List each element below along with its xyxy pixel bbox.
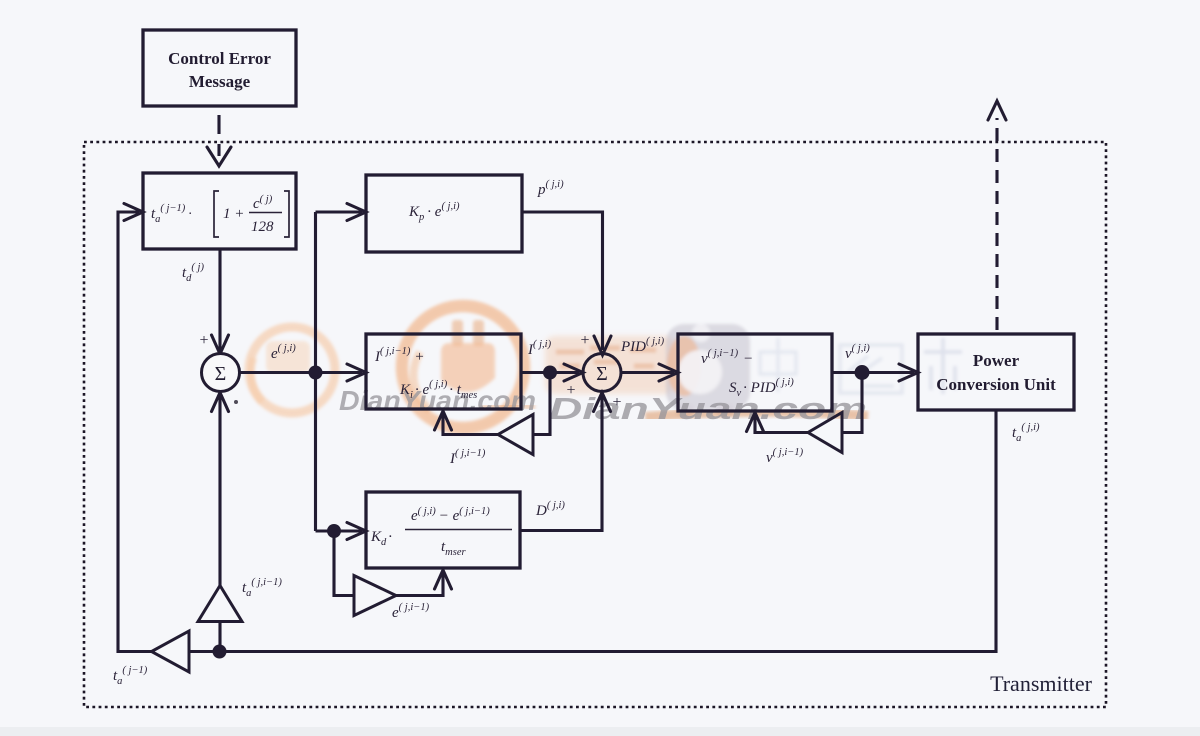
svg-text:DianYuan.com: DianYuan.com — [549, 391, 867, 426]
svg-text:1 +: 1 + — [223, 206, 244, 222]
svg-text:+: + — [566, 382, 575, 399]
svg-text:Σ: Σ — [596, 363, 608, 385]
svg-text:+: + — [580, 332, 589, 349]
svg-text:+: + — [612, 394, 621, 411]
svg-text:Σ: Σ — [215, 363, 227, 385]
svg-text:Conversion Unit: Conversion Unit — [936, 375, 1056, 394]
svg-text:Power: Power — [973, 351, 1020, 370]
svg-text:Message: Message — [189, 72, 251, 91]
svg-text:Control Error: Control Error — [168, 49, 271, 68]
svg-text:Transmitter: Transmitter — [990, 671, 1093, 696]
svg-text:+: + — [199, 332, 208, 349]
svg-text:128: 128 — [251, 219, 274, 235]
